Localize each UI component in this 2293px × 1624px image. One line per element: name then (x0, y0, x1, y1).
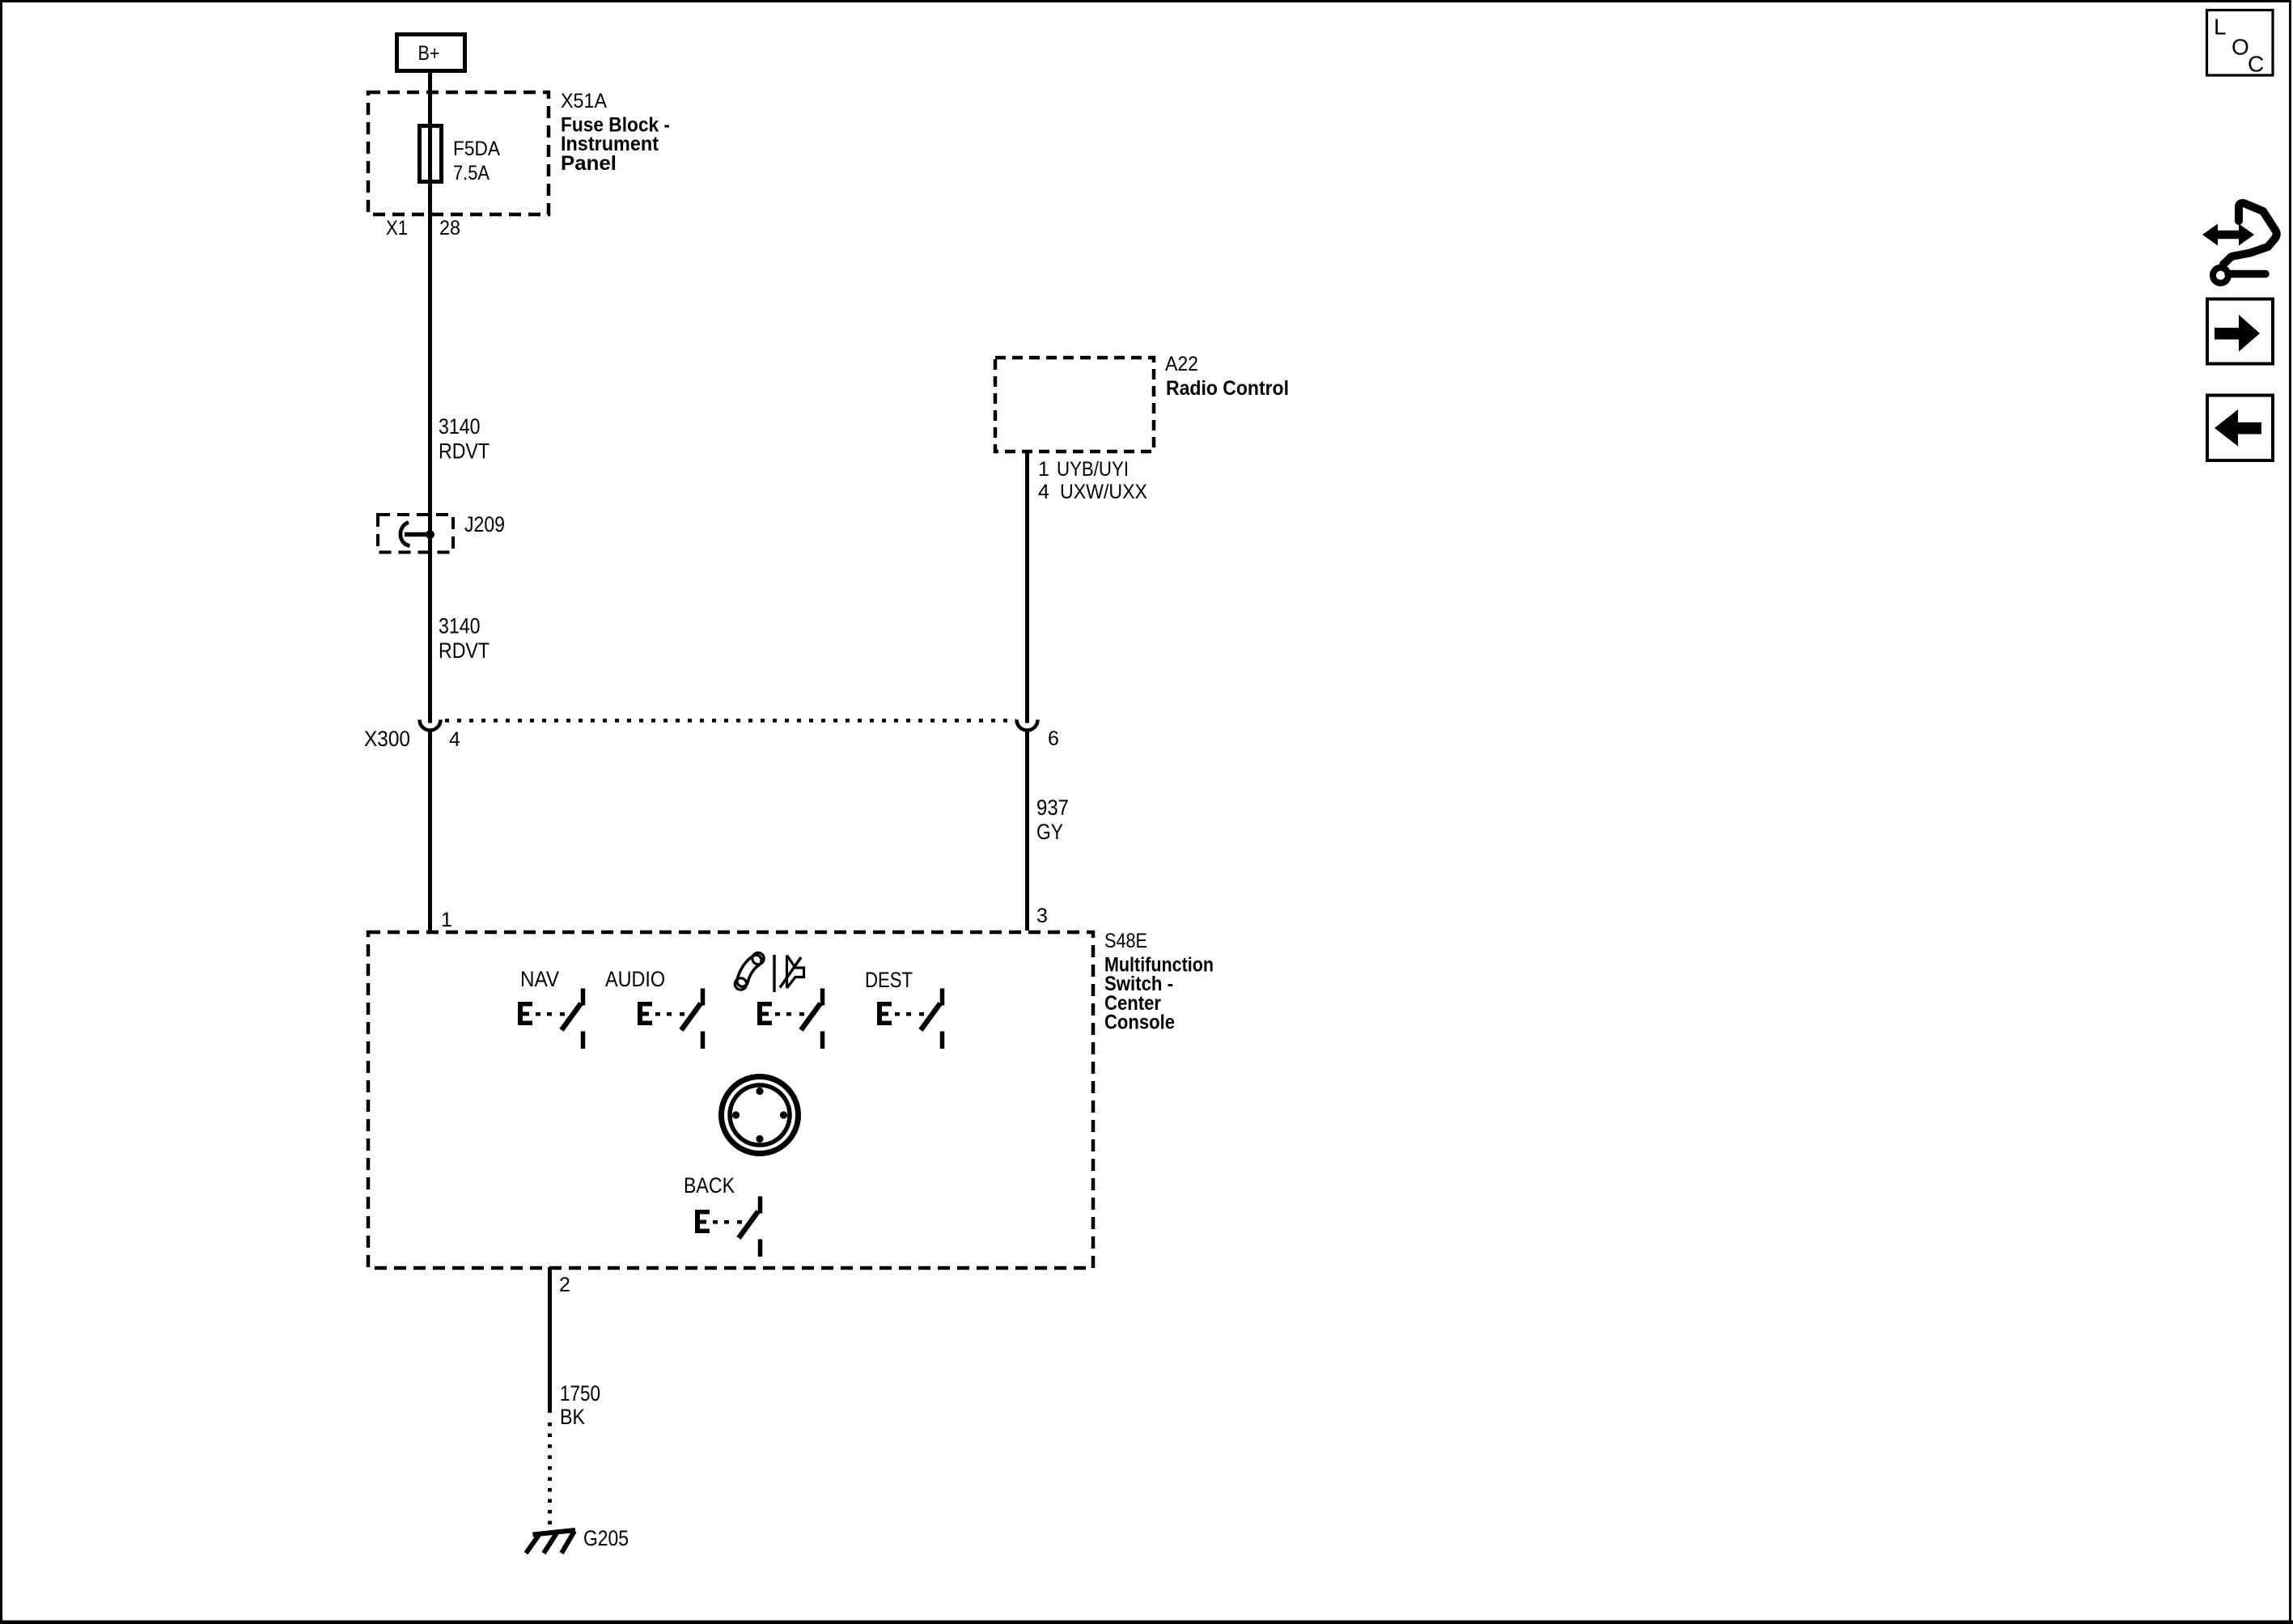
switch AUDIO (605, 967, 703, 1049)
svg-text:C: C (2248, 52, 2264, 77)
wire: fuse to X300 (circuit 3140 RDVT) (428, 184, 432, 723)
svg-text:GY: GY (1036, 820, 1063, 844)
nav button: arrow right (2207, 299, 2273, 364)
svg-text:X300: X300 (364, 727, 410, 751)
fuse block X51A dashed box (368, 92, 549, 214)
svg-text:RDVT: RDVT (439, 638, 490, 663)
dotted wire to ground (548, 1423, 552, 1528)
switch DEST (865, 968, 943, 1049)
wire: A22 to X300 (circuit 937 GY) (1025, 453, 1029, 723)
splice J209 (378, 512, 505, 553)
wire through fuse (428, 125, 432, 184)
switch BACK (684, 1173, 761, 1257)
fuse F5DA 7.5A (420, 126, 501, 185)
switch NAV (518, 967, 583, 1049)
twisted-harness icon: hook and bar (2213, 268, 2227, 283)
svg-text:BACK: BACK (684, 1173, 735, 1198)
svg-text:1: 1 (441, 909, 452, 931)
svg-text:UXW/UXX: UXW/UXX (1060, 481, 1147, 503)
connector cup right (X300 pin 6) (1017, 720, 1038, 731)
svg-text:7.5A: 7.5A (453, 162, 490, 184)
svg-text:3140: 3140 (439, 614, 481, 638)
svg-text:J209: J209 (464, 512, 505, 536)
nav button: arrow left (2207, 396, 2273, 461)
svg-text:G205: G205 (583, 1526, 629, 1550)
svg-text:X51A: X51A (561, 90, 607, 112)
svg-text:UYB/UYI: UYB/UYI (1057, 458, 1129, 481)
phone handset icon (735, 952, 764, 990)
mute speaker icon (780, 956, 804, 989)
svg-text:X1: X1 (386, 217, 408, 240)
svg-text:AUDIO: AUDIO (605, 967, 665, 991)
wire: S48E pin 2 to ground (1750 BK) (548, 1267, 552, 1413)
ground G205 (526, 1530, 575, 1554)
twisted-harness icon: double arrow (2202, 224, 2254, 246)
svg-text:RDVT: RDVT (439, 439, 490, 464)
svg-text:Radio Control: Radio Control (1166, 377, 1289, 400)
separator bar (773, 955, 776, 992)
rotary dial (722, 1077, 799, 1154)
twisted-harness icon: squiggle wire (2223, 203, 2277, 264)
svg-text:A22: A22 (1165, 353, 1198, 375)
svg-text:F5DA: F5DA (453, 138, 500, 160)
svg-text:937: 937 (1036, 795, 1069, 820)
svg-text:6: 6 (1048, 727, 1059, 750)
svg-text:3140: 3140 (439, 414, 481, 439)
svg-text:L: L (2214, 15, 2227, 40)
wire: B+ to fuse block X51A (vertical, x=531.5) (428, 73, 432, 125)
svg-text:Panel: Panel (561, 152, 617, 175)
connector cup left (X300 pin 4) (420, 720, 441, 731)
svg-text:3: 3 (1036, 905, 1048, 927)
LOC legend box (2207, 11, 2274, 77)
svg-text:2: 2 (559, 1274, 570, 1296)
radio control A22 dashed box (995, 358, 1154, 452)
svg-text:4: 4 (449, 728, 460, 751)
multifunction switch S48E dashed box (368, 932, 1093, 1268)
svg-text:1: 1 (1038, 458, 1049, 481)
switch phone/mute contact (757, 989, 823, 1049)
svg-text:1750: 1750 (560, 1381, 600, 1406)
svg-text:NAV: NAV (520, 967, 559, 991)
wire: X300 to S48E pin 3 (937 GY) (1025, 731, 1029, 931)
svg-text:B+: B+ (418, 42, 440, 65)
svg-text:O: O (2232, 35, 2249, 60)
svg-text:4: 4 (1038, 481, 1049, 503)
power node B+ (397, 35, 465, 71)
svg-text:28: 28 (439, 217, 460, 240)
wire: X300 to S48E pin 1 (3140 RDVT) (428, 731, 432, 931)
svg-text:Console: Console (1104, 1011, 1175, 1034)
connector X300 in-line (dotted link) (445, 719, 1016, 723)
svg-text:DEST: DEST (865, 968, 913, 992)
svg-text:S48E: S48E (1104, 930, 1147, 952)
svg-text:BK: BK (560, 1405, 585, 1429)
